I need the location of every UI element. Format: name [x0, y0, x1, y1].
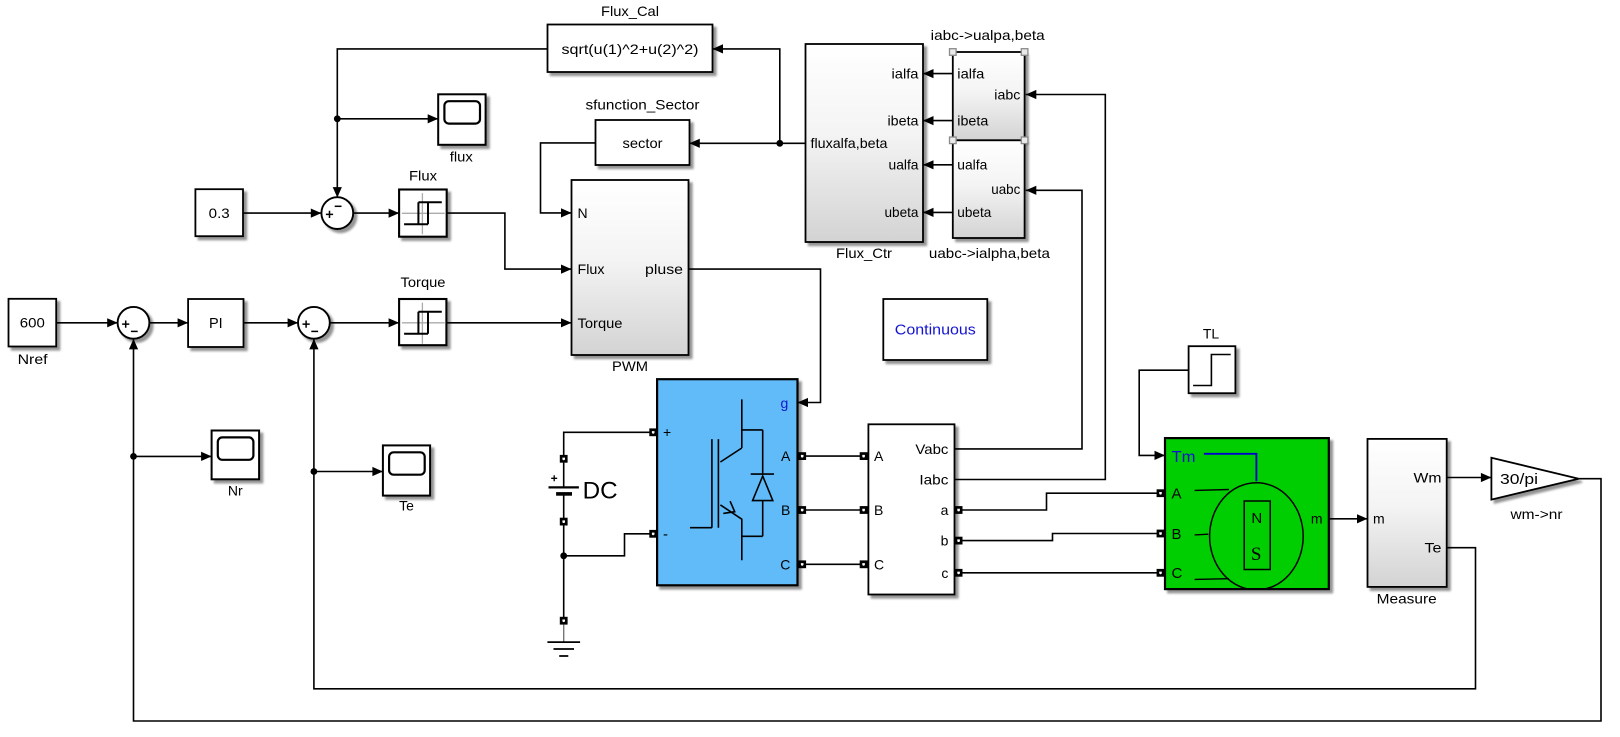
svg-text:ibeta: ibeta: [957, 112, 988, 128]
svg-text:Torque: Torque: [578, 315, 623, 331]
svg-text:C: C: [780, 556, 790, 572]
svg-text:iabc: iabc: [994, 86, 1020, 102]
svg-text:PI: PI: [209, 316, 223, 332]
svg-text:ialfa: ialfa: [957, 65, 984, 81]
svg-text:uabc: uabc: [991, 181, 1020, 197]
svg-text:a: a: [941, 502, 949, 518]
svg-text:Iabc: Iabc: [919, 472, 948, 488]
svg-text:m: m: [1311, 511, 1323, 527]
svg-text:Flux: Flux: [409, 168, 437, 184]
svg-text:uabc->ialpha,beta: uabc->ialpha,beta: [929, 245, 1050, 261]
svg-text:-: -: [663, 526, 668, 543]
svg-text:m: m: [1373, 511, 1385, 527]
svg-text:N: N: [1251, 510, 1262, 527]
svg-text:Measure: Measure: [1377, 591, 1437, 607]
svg-text:Wm: Wm: [1414, 469, 1442, 485]
svg-text:pluse: pluse: [645, 261, 683, 277]
svg-text:B: B: [1172, 526, 1182, 543]
svg-text:c: c: [941, 565, 948, 581]
svg-text:Vabc: Vabc: [915, 441, 948, 457]
svg-text:PWM: PWM: [612, 358, 648, 374]
svg-text:A: A: [1172, 486, 1182, 503]
svg-text:b: b: [941, 533, 949, 549]
svg-text:sector: sector: [623, 135, 663, 151]
svg-text:Flux: Flux: [578, 261, 605, 277]
svg-text:ualfa: ualfa: [889, 157, 919, 173]
svg-text:S: S: [1251, 544, 1262, 565]
svg-text:600: 600: [20, 315, 45, 331]
svg-text:sqrt(u(1)^2+u(2)^2): sqrt(u(1)^2+u(2)^2): [562, 41, 699, 57]
svg-text:iabc->ualpa,beta: iabc->ualpa,beta: [931, 27, 1045, 43]
svg-text:ualfa: ualfa: [957, 157, 987, 173]
svg-text:A: A: [781, 448, 791, 464]
svg-text:Continuous: Continuous: [895, 322, 976, 339]
svg-text:DC: DC: [583, 478, 618, 505]
svg-text:B: B: [874, 502, 883, 518]
svg-text:wm->nr: wm->nr: [1509, 506, 1562, 522]
svg-text:Tm: Tm: [1172, 449, 1196, 466]
svg-text:B: B: [781, 502, 790, 518]
svg-text:Flux_Cal: Flux_Cal: [601, 3, 659, 19]
svg-text:ialfa: ialfa: [892, 65, 919, 81]
svg-text:flux: flux: [450, 149, 473, 165]
svg-text:A: A: [874, 448, 884, 464]
svg-text:Te: Te: [399, 498, 414, 514]
svg-text:Nr: Nr: [228, 483, 243, 499]
svg-text:0.3: 0.3: [209, 205, 230, 221]
svg-text:ibeta: ibeta: [888, 112, 919, 128]
svg-text:Flux_Ctr: Flux_Ctr: [836, 245, 892, 261]
svg-text:30/pi: 30/pi: [1500, 471, 1538, 488]
svg-text:TL: TL: [1203, 326, 1220, 342]
svg-text:Torque: Torque: [401, 274, 446, 290]
svg-text:ubeta: ubeta: [885, 204, 919, 220]
svg-text:N: N: [578, 205, 588, 221]
svg-text:g: g: [781, 395, 789, 411]
svg-text:C: C: [1172, 565, 1183, 582]
svg-text:Te: Te: [1425, 540, 1442, 556]
svg-text:Nref: Nref: [18, 351, 48, 367]
svg-text:sfunction_Sector: sfunction_Sector: [586, 97, 700, 113]
svg-text:ubeta: ubeta: [957, 204, 991, 220]
svg-text:C: C: [874, 556, 884, 572]
svg-text:+: +: [663, 424, 671, 440]
svg-text:fluxalfa,beta: fluxalfa,beta: [811, 135, 888, 151]
